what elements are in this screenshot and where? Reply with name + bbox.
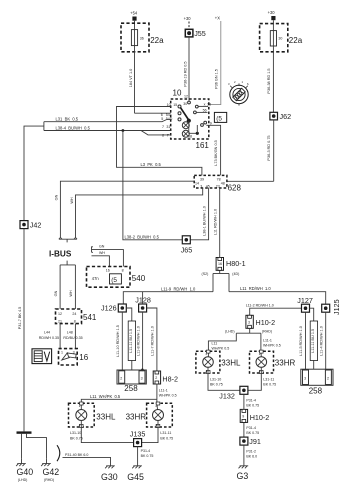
svg-text:WH: WH	[69, 290, 73, 297]
connector J126	[118, 304, 126, 312]
switch pin 56	[194, 108, 208, 113]
svg-text:L11-1: L11-1	[263, 338, 272, 342]
svg-text:1: 1	[61, 350, 63, 354]
svg-text:258: 258	[309, 386, 323, 395]
svg-text:J128: J128	[135, 295, 151, 304]
svg-text:L3 PK 0.5: L3 PK 0.5	[141, 162, 162, 167]
svg-text:3: 3	[200, 185, 202, 189]
connector J65	[181, 236, 193, 255]
svg-text:8: 8	[162, 133, 164, 137]
svg-text:33HR: 33HR	[275, 359, 296, 368]
svg-text:L11-1: L11-1	[159, 389, 168, 393]
connector J55	[185, 29, 205, 38]
connector J125	[322, 299, 341, 315]
switch pin 7/31 (warning lamp)	[162, 122, 189, 129]
svg-text:GN: GN	[55, 194, 59, 200]
svg-text:23: 23	[216, 185, 220, 189]
svg-text:22a: 22a	[150, 36, 164, 45]
wire L31 BK 0.5	[44, 117, 171, 122]
connector J132	[219, 386, 248, 400]
svg-text:18: 18	[207, 102, 211, 106]
wire L11-1 WH/PK 0.5 (RHD branch to 33HR right)	[261, 333, 281, 351]
svg-text:3: 3	[248, 320, 250, 324]
wire L31-10 BK 0.75 (33HL to J135)	[70, 427, 134, 443]
svg-text:H80-1: H80-1	[226, 259, 246, 268]
svg-text:J62: J62	[280, 112, 292, 121]
wire P31-4 BK 0.75 (H10-2 to J91)	[244, 422, 259, 437]
wire P31-4 BK 0.75 (J132 to H10-2)	[244, 394, 259, 409]
svg-text:(5: (5	[216, 115, 222, 122]
svg-text:39: 39	[200, 177, 204, 181]
wire L44 RD/WH 0.35 (541 to buzzer 16)	[39, 324, 60, 349]
svg-text:WH/PK 0.5: WH/PK 0.5	[212, 346, 230, 350]
svg-text:J127: J127	[297, 296, 313, 305]
svg-text:RD/WH 0.35: RD/WH 0.35	[39, 336, 59, 340]
I-BUS pair down to module 541	[54, 265, 76, 309]
svg-text:L11 WH/PK 0.5: L11 WH/PK 0.5	[90, 394, 121, 399]
svg-text:P31-7 BK 4.5: P31-7 BK 4.5	[18, 307, 22, 330]
svg-text:J132: J132	[219, 391, 235, 400]
svg-text:L38-1 BU/WH 1.0: L38-1 BU/WH 1.0	[203, 206, 207, 236]
instrument cluster pictogram	[32, 349, 52, 364]
svg-text:33HR: 33HR	[126, 413, 147, 422]
switch pin 6/54	[161, 112, 181, 117]
module 540 (I-BUS node)	[87, 267, 146, 288]
wire L31-11 BK 0.75 (33HR to J135)	[142, 427, 174, 443]
switch pin 8/P (lamp)	[162, 130, 189, 137]
svg-text:P36-3 RD 0.75: P36-3 RD 0.75	[267, 135, 271, 160]
variant wire L11-11 BU 1.5 (right, boxed)	[310, 308, 318, 369]
svg-text:30: 30	[183, 102, 187, 106]
svg-text:J55: J55	[194, 29, 206, 38]
svg-text:161: 161	[196, 141, 210, 150]
svg-text:2: 2	[120, 377, 122, 381]
ground G30	[101, 461, 118, 482]
svg-text:L11-10 RD/WH 1.5: L11-10 RD/WH 1.5	[116, 325, 120, 357]
variant branch bar (S2)/(4D)	[202, 272, 240, 292]
switch pin X/18 (top right)	[195, 102, 211, 108]
svg-text:12: 12	[58, 312, 62, 316]
svg-text:7: 7	[162, 125, 164, 129]
svg-text:33HL: 33HL	[96, 413, 116, 422]
svg-text:+X: +X	[215, 16, 220, 21]
svg-text:J91: J91	[249, 437, 261, 446]
svg-text:16: 16	[106, 268, 110, 272]
svg-text:10: 10	[173, 89, 182, 98]
svg-text:L11-11 BU 1.5: L11-11 BU 1.5	[129, 329, 133, 353]
svg-text:S: S	[247, 82, 249, 86]
svg-text:L31-10: L31-10	[210, 377, 221, 381]
svg-text:58: 58	[188, 135, 192, 139]
terminal +54	[130, 11, 138, 21]
junction dot L38 branch	[122, 129, 125, 132]
svg-text:48: 48	[221, 181, 225, 185]
connector H8-2	[153, 371, 178, 384]
svg-text:WH/PK 0.5: WH/PK 0.5	[159, 394, 177, 398]
svg-text:(LHD): (LHD)	[225, 330, 235, 334]
svg-text:P31-40 BK 6.0: P31-40 BK 6.0	[65, 453, 88, 457]
svg-text:540: 540	[132, 274, 146, 283]
svg-text:45: 45	[206, 185, 210, 189]
terminal +30 (right)	[268, 10, 276, 20]
svg-text:(S2): (S2)	[202, 272, 209, 276]
wire L11-6 RD/WH 1.0 (J128 to 258 pin 3)	[136, 312, 143, 371]
svg-text:WH: WH	[70, 197, 74, 204]
svg-text:P31-4: P31-4	[246, 398, 256, 402]
bus wire L11-9 RD/WH 1.0 (left segment)	[123, 287, 213, 304]
connector H10-2 (upper)	[246, 315, 275, 328]
fuse 22a (right, fuse 30)	[260, 20, 303, 112]
wire 184 VT 1.0 (fuse 22a to ignition switch pin 54)	[129, 52, 171, 113]
svg-text:31: 31	[166, 125, 170, 129]
svg-text:22a: 22a	[289, 36, 303, 45]
svg-text:L11-2 RD/WH 1.0: L11-2 RD/WH 1.0	[246, 304, 274, 308]
svg-text:54D: 54D	[166, 117, 173, 121]
svg-text:+30: +30	[268, 10, 276, 15]
svg-text:GN: GN	[99, 245, 105, 249]
svg-text:G3: G3	[237, 471, 249, 481]
svg-text:L31-11: L31-11	[263, 377, 274, 381]
svg-text:J135: J135	[130, 429, 146, 438]
svg-text:P31-2: P31-2	[246, 450, 256, 454]
svg-text:8: 8	[74, 319, 76, 323]
wire L11-1 WH/PK 0.5 (H8-2 down)	[157, 384, 177, 399]
variant bar (LHD)/(RHD) under H10-2	[225, 328, 272, 333]
symbol box (ignition key pictogram ref)	[214, 112, 226, 122]
svg-text:8: 8	[122, 268, 124, 272]
svg-text:21: 21	[58, 319, 62, 323]
svg-text:H10-2: H10-2	[256, 318, 276, 327]
variant wire L11-11 BU 1.5 (left, boxed)	[126, 308, 135, 370]
svg-text:I-BUS: I-BUS	[49, 250, 72, 259]
terminal +30 (over J55, dashed continuation)	[184, 16, 192, 29]
connector J128	[135, 292, 151, 312]
svg-text:G45: G45	[127, 472, 144, 482]
svg-text:P31-4: P31-4	[246, 426, 256, 430]
svg-text:L31-11: L31-11	[160, 431, 171, 435]
svg-text:x: x	[204, 102, 206, 106]
wire L11 RD/WH 1.0 (628 pin 23 to H80-1)	[213, 188, 219, 258]
wire L48 RD/BU 0.35	[63, 324, 82, 349]
svg-text:5: 5	[161, 117, 163, 121]
wire P36-3 RD 0.75 (J62 down to relay 628 pin 48)	[227, 120, 274, 181]
svg-text:J65: J65	[181, 246, 193, 255]
wire to G42	[27, 434, 47, 459]
svg-text:33HL: 33HL	[221, 359, 241, 368]
svg-text:WH: WH	[99, 251, 105, 255]
svg-text:3: 3	[141, 377, 143, 381]
wire P31-2 BK 6.0 (J91 to G3)	[244, 445, 257, 461]
svg-text:L38-2 BU/WH 0.5: L38-2 BU/WH 0.5	[125, 235, 160, 240]
svg-text:L38-4 BU/WH 0.5: L38-4 BU/WH 0.5	[56, 126, 91, 131]
svg-text:G40: G40	[17, 467, 34, 477]
ignition key position symbol	[228, 80, 249, 106]
svg-text:BK 6.0: BK 6.0	[246, 455, 257, 459]
connector H10-2 (lower)	[240, 409, 269, 422]
bulb unit 258 (left)	[117, 370, 146, 393]
bulb unit 258 (right)	[301, 369, 333, 395]
svg-text:(RHD): (RHD)	[262, 330, 272, 334]
ignition switch 10 / 161	[171, 89, 210, 150]
wire P31-7 BK 4.5 (J42 to ground junction)	[18, 229, 24, 432]
svg-text:BK 0.75: BK 0.75	[70, 436, 83, 440]
svg-text:L48: L48	[67, 331, 73, 335]
svg-text:RD/BU 0.35: RD/BU 0.35	[63, 336, 82, 340]
fuse 22a (left, fuse 36)	[121, 21, 164, 52]
svg-text:P31-4: P31-4	[141, 449, 151, 453]
svg-text:15: 15	[173, 103, 177, 107]
svg-text:J42: J42	[30, 221, 42, 230]
svg-text:P36-38 RD 1.5: P36-38 RD 1.5	[267, 68, 271, 93]
svg-text:L73 BK/GN 0.5: L73 BK/GN 0.5	[214, 140, 218, 166]
switch rotary wiper contact	[180, 107, 199, 138]
wire L11-5 RD/WH 1.0 (J127 to 258 right pin 3)	[299, 312, 306, 369]
svg-text:541: 541	[83, 313, 97, 322]
lamp 33HL (lower left)	[69, 402, 116, 427]
wire to G40	[21, 434, 23, 459]
svg-text:L11-9 RD/WH 1.0: L11-9 RD/WH 1.0	[161, 287, 196, 292]
wire L11 WH/PK 0.5 (to lamp 33HL bottom-left)	[81, 394, 157, 403]
switch pin 9 (contact to relay 628)	[201, 121, 221, 175]
svg-text:BK 0.75: BK 0.75	[141, 454, 154, 458]
svg-text:P36 GN 1.5: P36 GN 1.5	[215, 69, 219, 89]
wire P31-4 BK 0.75 (J135 to G45)	[138, 447, 154, 461]
svg-text:BK 0.75: BK 0.75	[263, 382, 276, 386]
svg-text:628: 628	[228, 184, 242, 193]
svg-text:J126: J126	[101, 304, 117, 313]
net 15 wire (pin 15 / L3 PK 0.5 to 628 pin 39)	[117, 107, 202, 176]
ground G40 (LHD)	[16, 459, 33, 482]
wire L31-11 BK 0.75 (33HR right to J132)	[248, 373, 276, 390]
svg-text:WH/PK 0.5: WH/PK 0.5	[263, 343, 281, 347]
ground junction bar	[17, 431, 32, 433]
wire L11-2 RD/WH 1.0 (H10-2 to J127)	[246, 304, 302, 316]
svg-text:9: 9	[242, 414, 244, 418]
connector H80-1	[216, 258, 245, 274]
svg-text:BK 0.75: BK 0.75	[246, 431, 259, 435]
I-BUS twisted pair (GN wire to 628 pin 14)	[55, 181, 195, 237]
lamp 33HR (right group)	[250, 350, 296, 373]
svg-text:G30: G30	[101, 472, 118, 482]
connector J91	[240, 437, 261, 446]
ground G45	[127, 461, 144, 482]
svg-text:14: 14	[195, 181, 199, 185]
ground G42 (RHD)	[41, 459, 59, 482]
svg-text:BK 0.75: BK 0.75	[210, 382, 223, 386]
svg-text:P36-19 RD 0.5: P36-19 RD 0.5	[184, 61, 188, 86]
svg-text:J125: J125	[332, 299, 341, 315]
svg-text:L11 RD/WH 1.0: L11 RD/WH 1.0	[213, 209, 217, 235]
wire L31-10 BK 0.75 (33HL right to J132)	[208, 373, 240, 390]
connector J42	[20, 221, 41, 230]
svg-text:L11: L11	[212, 341, 218, 345]
switch pin 30 (top)	[183, 101, 190, 106]
svg-text:184 VT 1.0: 184 VT 1.0	[129, 69, 133, 88]
wire L11 WH/PK 0.5 (LHD branch to 33HL right)	[208, 333, 236, 351]
I-BUS twisted pair (WH wire to 628 pin 3)	[70, 188, 203, 238]
svg-text:H8-2: H8-2	[162, 375, 178, 384]
connector J62	[270, 112, 291, 121]
svg-text:(4D): (4D)	[232, 272, 239, 276]
svg-text:L11-7 RD/WH 1.0: L11-7 RD/WH 1.0	[151, 326, 155, 356]
svg-text:12: 12	[184, 95, 188, 99]
svg-text:L11-4 RD/WH 1.0: L11-4 RD/WH 1.0	[319, 326, 323, 356]
connector J127	[297, 296, 313, 312]
svg-text:+54: +54	[130, 11, 138, 16]
svg-text:L11-5 RD/WH 1.0: L11-5 RD/WH 1.0	[299, 326, 303, 356]
twisted-pair break symbol (top)	[59, 238, 77, 243]
svg-text:+30: +30	[184, 16, 192, 21]
wire to J42 ground line (left)	[24, 122, 44, 221]
wire L38-4 BU/WH 0.5	[44, 126, 171, 135]
svg-text:L44: L44	[44, 331, 50, 335]
svg-text:BK 0.75: BK 0.75	[160, 436, 173, 440]
I-BUS branch to module 540	[92, 245, 124, 267]
svg-text:BK 0.75: BK 0.75	[246, 403, 259, 407]
switch pin 10/15	[167, 103, 181, 108]
wire L11-4 RD/WH 1.0 (J125 to 258 right pin 2)	[319, 312, 325, 369]
svg-text:2: 2	[327, 377, 329, 381]
svg-text:L31-10: L31-10	[70, 431, 81, 435]
svg-text:24: 24	[72, 312, 76, 316]
twisted-pair break symbol (bottom)	[60, 261, 75, 265]
svg-text:L31 BK 0.5: L31 BK 0.5	[56, 117, 79, 122]
wire L11-7 RD/WH 1.0 (J128 to H8-2)	[147, 308, 157, 371]
svg-text:56: 56	[203, 108, 207, 112]
svg-text:16: 16	[79, 353, 88, 362]
connector J135	[130, 429, 146, 446]
svg-text:L11-8 RD/WH 1.0: L11-8 RD/WH 1.0	[136, 326, 140, 356]
ground G3	[237, 461, 249, 481]
svg-text:H10-2: H10-2	[250, 413, 270, 422]
module 541	[56, 309, 97, 324]
svg-text:(RHD): (RHD)	[44, 478, 54, 482]
svg-text:GN: GN	[54, 290, 58, 296]
bus wire L11 RD/WH 1.0 (right segment)	[229, 286, 326, 304]
terminal +X	[208, 16, 221, 105]
svg-text:G42: G42	[43, 467, 60, 477]
relay 628	[194, 175, 241, 192]
svg-text:(5: (5	[111, 277, 117, 284]
switch pin 5/54D	[161, 117, 181, 121]
lamp 33HR (lower left pair)	[126, 402, 173, 427]
lamp 33HL (right group)	[196, 350, 241, 373]
svg-text:16: 16	[218, 262, 222, 266]
svg-text:3: 3	[304, 377, 306, 381]
wire P31-40 BK 6.0 (to G30)	[57, 445, 111, 461]
svg-text:47n: 47n	[92, 276, 100, 281]
buzzer 16	[59, 349, 89, 365]
wire L38-2 BU/WH 0.5 (branch to J65 and 628 pin 45)	[123, 131, 209, 240]
svg-text:2: 2	[155, 376, 157, 380]
svg-text:30: 30	[278, 36, 282, 40]
wire P36-19 RD 0.5 (J55 to ignition switch pin 30)	[184, 37, 189, 101]
wire L11-10 RD/WH 1.5 (J126 to 258 pin 2)	[116, 312, 122, 370]
svg-text:258: 258	[124, 384, 138, 393]
svg-text:36: 36	[140, 36, 144, 40]
svg-text:L11-11 BU 1.5: L11-11 BU 1.5	[311, 329, 315, 353]
svg-text:L11 RD/WH 1.0: L11 RD/WH 1.0	[240, 286, 271, 291]
svg-text:(LHD): (LHD)	[18, 478, 28, 482]
